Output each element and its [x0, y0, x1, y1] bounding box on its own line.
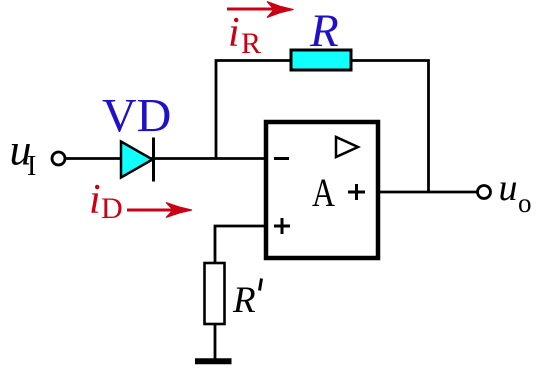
svg-text:o: o [518, 188, 532, 218]
svg-text:u: u [499, 167, 518, 209]
svg-text:R: R [309, 5, 339, 57]
svg-text:I: I [27, 151, 36, 182]
svg-text:i: i [89, 177, 101, 223]
svg-text:i: i [228, 10, 240, 56]
svg-text:VD: VD [102, 90, 171, 143]
svg-text:R: R [232, 280, 256, 321]
svg-text:D: D [101, 192, 123, 225]
svg-text:A: A [312, 170, 335, 215]
svg-text:R: R [241, 27, 261, 60]
